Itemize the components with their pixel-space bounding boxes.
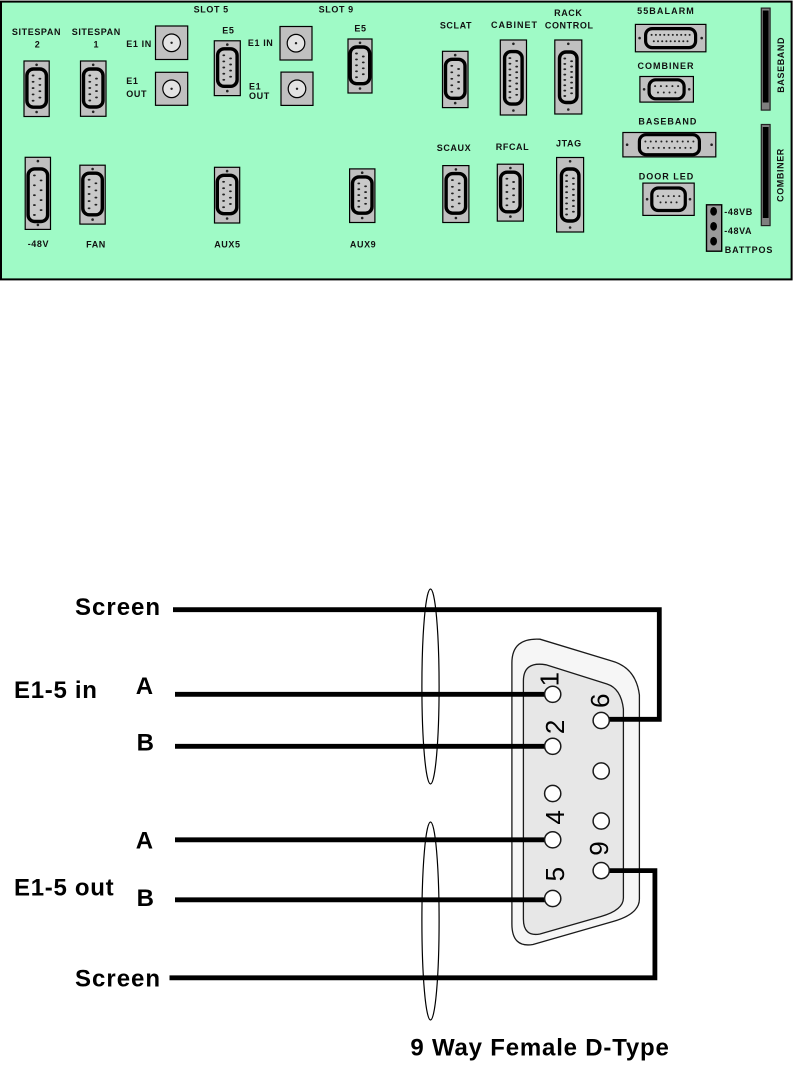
svg-text:RFCAL: RFCAL xyxy=(496,142,530,152)
connector SCAUX D9 xyxy=(443,166,469,223)
svg-text:COMBINER: COMBINER xyxy=(776,148,786,202)
connector SCLAT D9 xyxy=(443,51,469,107)
label -48V xyxy=(28,239,49,249)
label SLOT 5 xyxy=(194,5,229,15)
svg-text:9 Way Female D-Type: 9 Way Female D-Type xyxy=(410,1035,669,1062)
BNC E1 IN slot9 xyxy=(280,27,312,61)
pin 3 xyxy=(545,785,561,801)
svg-text:B: B xyxy=(137,885,155,912)
svg-text:BASEBAND: BASEBAND xyxy=(776,37,786,93)
baseband edge bar xyxy=(761,8,770,110)
wire E1-5 in B (pin2) xyxy=(175,744,553,749)
label SLOT 9 xyxy=(319,5,354,15)
connector BASEBAND D25 xyxy=(623,133,716,157)
connector AUX9 D9 xyxy=(350,169,375,223)
svg-text:SITESPAN: SITESPAN xyxy=(12,27,61,37)
label E1-5 in xyxy=(14,677,98,704)
svg-text:2: 2 xyxy=(540,720,570,734)
cable shield E1-5 out xyxy=(422,822,439,1020)
pin number 4 xyxy=(540,810,570,824)
label DOOR LED xyxy=(639,172,695,182)
svg-text:55BALARM: 55BALARM xyxy=(637,6,695,16)
svg-text:Screen: Screen xyxy=(75,965,161,992)
svg-text:6: 6 xyxy=(585,693,615,707)
label BASEBAND vertical xyxy=(776,37,786,93)
pin number 1 xyxy=(535,672,565,686)
combiner edge bar xyxy=(761,125,770,226)
svg-text:-48V: -48V xyxy=(28,239,49,249)
label E1 (out slot5) xyxy=(126,76,138,86)
label CABINET xyxy=(491,20,538,30)
wire screen bottom (pin9) xyxy=(170,871,655,978)
label AUX9 xyxy=(350,240,376,250)
svg-text:E5: E5 xyxy=(222,26,234,36)
svg-text:SLOT 5: SLOT 5 xyxy=(194,5,229,15)
svg-text:A: A xyxy=(136,673,154,700)
svg-text:COMBINER: COMBINER xyxy=(638,61,695,71)
label BATTPOS xyxy=(725,245,774,255)
label CONTROL xyxy=(545,21,594,31)
svg-text:FAN: FAN xyxy=(86,240,106,250)
svg-text:2: 2 xyxy=(35,39,41,49)
svg-text:4: 4 xyxy=(540,810,570,824)
connector FAN D9 xyxy=(80,165,105,224)
label B (in) xyxy=(137,730,155,757)
label FAN xyxy=(86,240,106,250)
pin 7 xyxy=(593,763,609,779)
pin number 5 xyxy=(540,867,570,881)
connector SITESPAN2 D9 xyxy=(24,61,49,117)
label RFCAL xyxy=(496,142,530,152)
svg-text:Screen: Screen xyxy=(75,594,161,621)
svg-text:JTAG: JTAG xyxy=(556,139,582,149)
label 9 Way Female D-Type xyxy=(410,1035,669,1062)
label COMBINER xyxy=(638,61,695,71)
label COMBINER vertical xyxy=(776,148,786,202)
label OUT slot9 xyxy=(249,91,270,101)
label E1 (out slot9) xyxy=(249,82,261,92)
svg-text:1: 1 xyxy=(93,39,99,49)
pin number 6 xyxy=(585,693,615,707)
svg-text:E5: E5 xyxy=(354,24,366,34)
pin 4 xyxy=(545,832,561,848)
svg-text:SLOT 9: SLOT 9 xyxy=(319,5,354,15)
pin number 9 xyxy=(584,841,614,855)
svg-text:SCAUX: SCAUX xyxy=(437,143,472,153)
pin number 2 xyxy=(540,720,570,734)
label Screen top xyxy=(75,594,161,621)
label E5 slot9 xyxy=(354,24,366,34)
label RACK xyxy=(554,8,582,18)
BNC E1 IN slot5 xyxy=(156,26,188,60)
label SITESPAN (2) xyxy=(12,27,61,37)
label Screen bottom xyxy=(75,965,161,992)
connector AUX5 D9 xyxy=(215,167,240,223)
svg-text:B: B xyxy=(137,730,155,757)
label -48VB xyxy=(724,207,753,217)
connector JTAG D15 xyxy=(557,158,584,233)
svg-text:AUX5: AUX5 xyxy=(214,240,240,250)
connector DOOR LED D9 xyxy=(643,183,694,215)
svg-text:1: 1 xyxy=(535,672,565,686)
connector 55BALARM D25 xyxy=(635,24,706,51)
svg-text:E1-5 out: E1-5 out xyxy=(14,875,114,902)
label OUT slot5 xyxy=(126,89,147,99)
label 55BALARM xyxy=(637,6,695,16)
LED block BATTPOS xyxy=(707,205,722,251)
pin 6 xyxy=(593,712,609,728)
connector -48V D xyxy=(25,157,50,229)
connector E5 slot5 D9 xyxy=(214,41,240,96)
pin 8 xyxy=(593,813,609,829)
label -48VA xyxy=(724,226,752,236)
BNC E1 OUT slot9 xyxy=(281,72,313,105)
svg-text:-48VA: -48VA xyxy=(724,226,752,236)
label 2 xyxy=(35,39,41,49)
wire screen top xyxy=(173,610,659,720)
label BASEBAND xyxy=(638,117,697,127)
BNC E1 OUT slot5 xyxy=(156,72,188,105)
label SITESPAN (1) xyxy=(72,27,121,37)
connector SITESPAN1 D9 xyxy=(81,61,107,116)
pin 9 xyxy=(593,863,609,879)
wire E1-5 in A (pin1) xyxy=(175,692,553,697)
svg-text:E1 IN: E1 IN xyxy=(248,38,274,48)
connector RACK CONTROL D15 xyxy=(555,40,582,114)
svg-text:DOOR LED: DOOR LED xyxy=(639,172,695,182)
svg-text:OUT: OUT xyxy=(126,89,147,99)
svg-text:OUT: OUT xyxy=(249,91,270,101)
svg-text:RACK: RACK xyxy=(554,8,582,18)
label SCLAT xyxy=(440,21,472,31)
svg-text:CABINET: CABINET xyxy=(491,20,538,30)
wire E1-5 out B (pin5) xyxy=(175,897,553,902)
svg-text:E1-5 in: E1-5 in xyxy=(14,677,98,704)
svg-text:E1 IN: E1 IN xyxy=(126,39,152,49)
label AUX5 xyxy=(214,240,240,250)
connector RFCAL D9 xyxy=(497,164,523,221)
connector COMBINER D9 xyxy=(640,77,694,103)
wire E1-5 out A (pin4) xyxy=(175,837,553,842)
D-type shell outer xyxy=(512,639,640,945)
label E1-5 out xyxy=(14,875,114,902)
label JTAG xyxy=(556,139,582,149)
svg-text:9: 9 xyxy=(584,841,614,855)
svg-text:E1: E1 xyxy=(126,76,138,86)
svg-text:-48VB: -48VB xyxy=(724,207,753,217)
label A (in) xyxy=(136,673,154,700)
svg-text:A: A xyxy=(136,827,154,854)
connector CABINET D15 xyxy=(500,40,526,115)
D-type shell inner face xyxy=(523,664,623,934)
pin 2 xyxy=(545,738,561,754)
svg-text:BATTPOS: BATTPOS xyxy=(725,245,774,255)
pin 5 xyxy=(545,890,561,906)
connector E5 slot9 D9 xyxy=(348,39,372,93)
pin 1 xyxy=(545,686,561,702)
label E5 slot5 xyxy=(222,26,234,36)
svg-text:SITESPAN: SITESPAN xyxy=(72,27,121,37)
svg-text:SCLAT: SCLAT xyxy=(440,21,472,31)
svg-text:BASEBAND: BASEBAND xyxy=(638,117,697,127)
label SCAUX xyxy=(437,143,472,153)
label E1 IN slot5 xyxy=(126,39,152,49)
label B (out) xyxy=(137,885,155,912)
label E1 IN slot9 xyxy=(248,38,274,48)
cable shield E1-5 in xyxy=(422,589,439,784)
panel background xyxy=(1,2,792,280)
svg-text:CONTROL: CONTROL xyxy=(545,21,594,31)
svg-text:5: 5 xyxy=(540,867,570,881)
label A (out) xyxy=(136,827,154,854)
label 1 xyxy=(93,39,99,49)
svg-text:AUX9: AUX9 xyxy=(350,240,376,250)
